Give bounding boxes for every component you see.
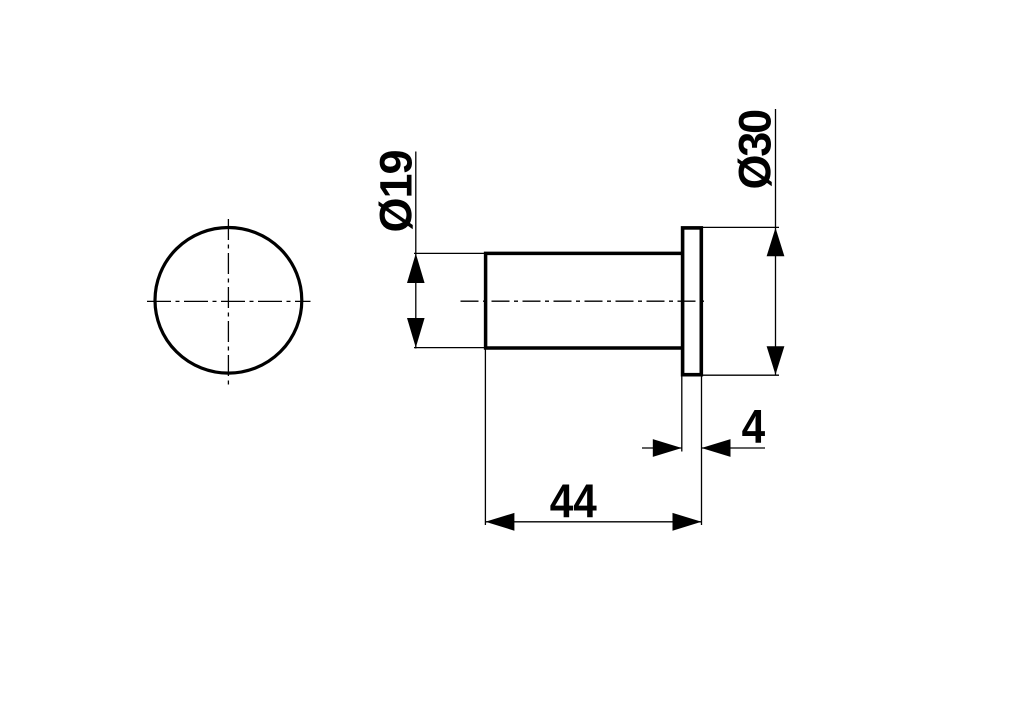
dimension 44: right arrowhead pointing right	[673, 513, 702, 531]
dimension Ø19: top extension line	[414, 252, 485, 254]
dimension Ø30: top extension line	[701, 226, 779, 228]
dimension 44: dimension line	[485, 521, 701, 523]
svg-text:44: 44	[550, 476, 597, 528]
horizontal centerline of front view	[147, 300, 311, 302]
svg-text:Ø19: Ø19	[371, 150, 422, 232]
dimension Ø19: lower arrowhead	[407, 318, 425, 348]
dimension Ø30: lower arrowhead	[767, 346, 785, 375]
dimension Ø30: upper arrowhead	[767, 228, 785, 257]
svg-text:4: 4	[742, 402, 766, 454]
side view cylinder body outline	[486, 253, 683, 348]
dimension 4: right extension line (flange right edge)	[701, 377, 703, 526]
dimension Ø30: vertical dimension line	[775, 109, 777, 375]
dimension 4: left tail line	[642, 447, 682, 449]
dimension Ø19: upper arrowhead	[407, 253, 425, 283]
front view circle (flange Ø30)	[155, 227, 302, 373]
vertical centerline of front view	[227, 219, 229, 385]
dimension 4: left extension line (flange left edge)	[681, 377, 683, 452]
dimension 4: right tail line	[702, 447, 766, 449]
dimension 4: left arrowhead pointing right	[653, 439, 682, 457]
dimension 44: left arrowhead pointing left	[485, 513, 514, 531]
dimension 44: left extension line	[484, 349, 486, 525]
dimension 4: right arrowhead pointing left	[702, 439, 731, 457]
side view horizontal centerline	[461, 300, 707, 302]
dimension Ø19: vertical dimension line	[415, 152, 417, 349]
side view flange rectangle	[683, 228, 702, 375]
dimension Ø19: bottom extension line	[414, 347, 485, 349]
svg-text:Ø30: Ø30	[730, 110, 781, 190]
dimension Ø30: bottom extension line	[701, 374, 779, 376]
